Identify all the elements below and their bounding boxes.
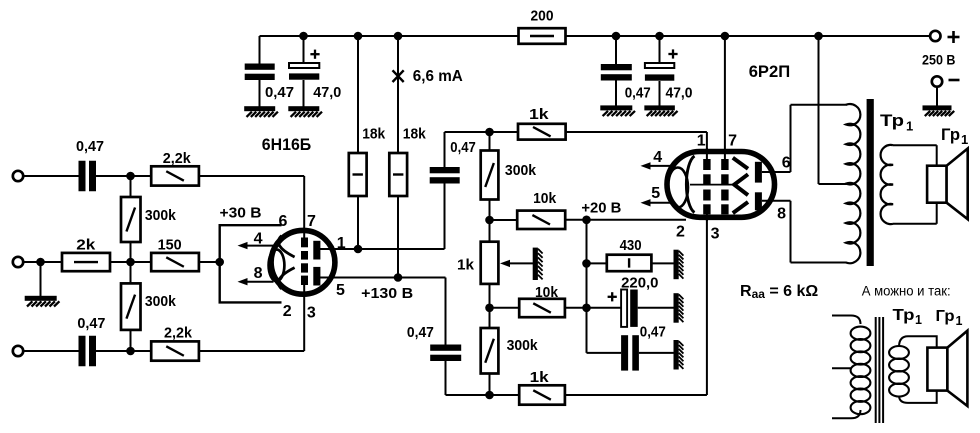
label 0,47 (cathode bypass) [640, 324, 666, 341]
svg-text:6: 6 [279, 213, 288, 230]
wire splitter top to 300k [489, 132, 491, 151]
wire 10k to cathode 6P2P [565, 219, 686, 221]
wire 2,2k to grid pin3 [199, 285, 304, 351]
wire 18k-1 top [357, 36, 359, 153]
wire 300k to bottom node [130, 330, 132, 351]
node rail-47u0-left [299, 32, 308, 41]
pin label 8 [254, 265, 263, 282]
grid arrow pin 4 [238, 242, 274, 249]
label 250 В [922, 52, 956, 68]
svg-text:4: 4 [653, 149, 662, 166]
wire cap up and right [445, 132, 490, 167]
terminal input bottom [13, 346, 23, 356]
alt OT primary lead top [832, 316, 861, 325]
wire 0,47 right cap to rail [615, 36, 617, 64]
wire 220,0 to chassis [638, 307, 674, 309]
label Raa = 6 kOhm [740, 283, 818, 301]
wire to 10k upper [490, 219, 518, 221]
wire cap to ground [303, 80, 305, 107]
svg-text:+130 В: +130 В [361, 285, 413, 302]
svg-text:3: 3 [307, 305, 316, 322]
chassis hatch (0,47) [674, 340, 684, 370]
wire 18k-1 bottom [357, 196, 359, 249]
svg-text:300k: 300k [145, 207, 177, 224]
plus sign [948, 31, 960, 43]
wire anode pin8 to OT [762, 201, 847, 263]
heater V2 [668, 168, 688, 208]
terminal + 250V [930, 31, 940, 41]
beam plate top V2 [733, 158, 748, 169]
wire input bottom [23, 350, 78, 352]
OT secondary winding [881, 145, 893, 224]
wire secondary top [893, 145, 937, 166]
pin label 1 [337, 235, 346, 252]
pin label 5 V2 [651, 185, 660, 202]
potentiometer 1k (balance) [481, 242, 499, 284]
cathode arc upper V1 [278, 236, 294, 257]
pin label 7 [307, 213, 316, 230]
label 1k (top) [529, 106, 549, 123]
wire to 10k lower [490, 307, 520, 309]
chassis hatch (220,0) [674, 293, 684, 323]
svg-text:6: 6 [782, 155, 791, 172]
svg-text:6Р2П: 6Р2П [749, 62, 791, 81]
svg-text:6,6 mA: 6,6 mA [413, 68, 463, 85]
resistor 2k [62, 253, 110, 271]
svg-text:10k: 10k [535, 284, 559, 301]
svg-text:300k: 300k [507, 337, 539, 354]
svg-text:200: 200 [531, 8, 554, 25]
wire cap down to bottom wire [446, 361, 520, 395]
resistor 300k (upper left) [121, 197, 141, 242]
wire pin3 inside V2 [706, 214, 708, 221]
wire 10k lower to bus [565, 307, 621, 309]
terminal - 250V [932, 76, 942, 86]
label Гр1 (alt) [936, 308, 963, 328]
resistor 300k (splitter lower) [481, 328, 499, 374]
ground (right 47,0) [644, 105, 677, 116]
label 0,47 (top coupling) [450, 139, 476, 156]
resistor 18k (second) [389, 153, 407, 196]
node pin1-18k [354, 245, 363, 254]
pin label 3 [307, 305, 316, 322]
svg-text:18k: 18k [362, 126, 386, 143]
resistor 10k (upper) [517, 211, 565, 229]
svg-text:3: 3 [711, 226, 720, 243]
svg-text:300k: 300k [505, 162, 537, 179]
svg-text:5: 5 [336, 282, 345, 299]
wire bus to 430 [587, 262, 607, 264]
svg-text:5: 5 [651, 185, 660, 202]
wire 2,2k to grid pin7 [199, 176, 304, 239]
label 10k (lower) [535, 284, 559, 301]
label 300k (lower left) [145, 293, 177, 310]
alt speaker Гр1 horn [947, 331, 967, 406]
wire pin5 down to coupling cap [445, 278, 447, 345]
wire input top [23, 175, 78, 177]
node bottom-input [126, 347, 135, 356]
pin label 1 V2 [697, 133, 706, 150]
resistor 10k (lower) [519, 299, 565, 317]
node mid-input [126, 258, 135, 267]
label 300k (upper left) [145, 207, 177, 224]
wire to ground [40, 262, 42, 296]
resistor 200 (B+ dropper) [519, 28, 566, 44]
wire 2k to 150 [110, 261, 151, 263]
node bottom-wire [485, 391, 494, 400]
label 47,0 (right) [666, 85, 693, 102]
label 47,0 [313, 84, 341, 101]
pin label 4 [254, 230, 263, 247]
wire node to 300k lower [130, 262, 132, 283]
grid arrow pin 4 V2 [641, 162, 672, 169]
ground (left 47,0) [288, 106, 322, 117]
svg-text:430: 430 [620, 237, 642, 254]
speaker Гр1 coil [927, 166, 947, 203]
label 0,47 (bottom coupling) [407, 324, 434, 341]
node splitter-mid-upper [485, 216, 494, 225]
anode bar lower V1 [313, 267, 320, 286]
label 1k (bottom) [530, 369, 550, 386]
label 300k (splitter lower) [507, 337, 539, 354]
svg-text:1k: 1k [530, 369, 550, 386]
svg-text:0,47: 0,47 [77, 315, 105, 332]
label 2,2k (bottom) [164, 325, 193, 342]
svg-text:Гр: Гр [936, 308, 955, 325]
svg-text:1k: 1k [529, 106, 549, 123]
capacitor 47,0 electrolytic (left filter) [289, 63, 319, 80]
node rail-pin7-6P2P [721, 32, 730, 41]
anode bar lower V2 [755, 192, 762, 210]
wire pin1 inside V2 [706, 148, 708, 160]
svg-text:2: 2 [283, 303, 292, 320]
capacitor 0,47 (top coupling) [430, 167, 460, 184]
cathode arc V2 [686, 156, 694, 213]
node grid-box [215, 258, 224, 267]
wire 0,47 left cap to rail [259, 36, 261, 64]
grid 1 dashes V2 [703, 159, 710, 214]
svg-text:7: 7 [728, 133, 737, 150]
svg-text:+20 В: +20 В [581, 200, 621, 217]
svg-text:0,47: 0,47 [625, 85, 651, 102]
svg-text:Тр: Тр [880, 111, 904, 130]
pin label 2 [283, 303, 292, 320]
svg-text:Тр: Тр [893, 307, 915, 324]
svg-text:2: 2 [676, 224, 685, 241]
pin label 4 V2 [653, 149, 662, 166]
svg-text:0,47: 0,47 [407, 324, 434, 341]
alt OT core [876, 317, 883, 423]
grid dashes V1 [301, 238, 308, 286]
alt OT primary center tap [832, 367, 851, 369]
pin label 6 V2 [782, 155, 791, 172]
resistor 18k (first) [349, 153, 367, 196]
svg-text:10k: 10k [533, 190, 557, 207]
chassis hatch (pot wiper) [533, 248, 543, 280]
svg-text:220,0: 220,0 [621, 275, 658, 292]
node rail-18k-2 [394, 32, 403, 41]
pot wiper arrow [500, 260, 533, 267]
svg-text:2k: 2k [76, 237, 96, 254]
svg-text:300k: 300k [145, 293, 177, 310]
svg-text:1k: 1k [457, 257, 475, 274]
OT core [867, 99, 874, 266]
wire 150 to grid box [199, 261, 220, 263]
label +130 В [361, 285, 413, 302]
node bus-430 [582, 259, 591, 268]
wire 0,47 to chassis [639, 352, 674, 354]
alt OT secondary lead top [899, 336, 937, 347]
label Гр1 (main) [941, 125, 968, 147]
svg-text:А можно и так:: А можно и так: [862, 284, 951, 299]
node bus-10k-lower [582, 304, 591, 313]
wire pin7 V2 [724, 36, 726, 160]
wire cathode frame pins 6-2 [220, 225, 282, 302]
label 1k (pot) [457, 257, 475, 274]
current test point x [393, 70, 404, 82]
svg-text:0,47: 0,47 [450, 139, 476, 156]
wire pin1 up to coupling cap [444, 184, 446, 250]
chassis hatch (430) [674, 250, 684, 280]
svg-text:1: 1 [956, 314, 963, 328]
svg-text:1: 1 [906, 119, 913, 134]
ground (right 0,47) [600, 105, 635, 116]
label 0,47 [265, 84, 294, 101]
label +30 В [220, 205, 262, 222]
label А можно и так: [862, 284, 951, 299]
OT primary winding [846, 104, 861, 263]
resistor 2,2k (bottom) [151, 341, 199, 360]
svg-text:1: 1 [961, 132, 968, 147]
capacitor 0,47 (bottom coupling) [430, 345, 461, 362]
svg-text:+30 В: +30 В [220, 205, 262, 222]
svg-text:Гр: Гр [941, 125, 960, 144]
svg-text:250 В: 250 В [922, 52, 956, 68]
svg-text:0,47: 0,47 [76, 138, 104, 155]
label 2,2k (top) [163, 150, 192, 167]
grid arrow pin 8 [238, 278, 274, 285]
beam plate middle V2 [734, 174, 748, 195]
label 6Р2П [749, 62, 791, 81]
resistor 1k (bottom) [519, 385, 565, 404]
wire 430 to chassis [651, 262, 673, 264]
node +20V [582, 216, 591, 225]
wire minus to ground [936, 87, 938, 106]
wire pin7 inside [303, 232, 305, 239]
label 150 [158, 237, 182, 254]
node rail-0u47-right [612, 32, 621, 41]
label 6Н16Б [262, 135, 311, 154]
capacitor 0,47 (cathode bypass) [621, 335, 639, 370]
wire 1k to grid1 6P2P [566, 132, 707, 160]
node splitter-mid-lower [485, 304, 494, 313]
wire anode pin1 [318, 248, 445, 250]
wire 1k to grid3 6P2P [565, 214, 707, 395]
alt OT secondary lead bottom [899, 391, 937, 403]
speaker Гр1 horn [947, 149, 968, 220]
capacitor 47,0 electrolytic (right filter) [645, 63, 674, 81]
wire OT center tap to rail [819, 36, 847, 184]
wire node to 300k [130, 176, 132, 197]
wire cap to 2,2k bottom [96, 350, 151, 352]
wire 18k-2 top [397, 36, 399, 153]
wire 300k to mid node [130, 242, 132, 262]
capacitor 0,47 (bottom input) [79, 336, 97, 367]
svg-text:0,47: 0,47 [640, 324, 666, 341]
resistor 300k (lower left) [121, 283, 141, 330]
pin label 5 [336, 282, 345, 299]
wire 300k to node [489, 200, 491, 242]
pin label 8 V2 [777, 206, 786, 223]
wire B+ rail [260, 35, 931, 37]
wire 47,0 left cap to rail [303, 36, 305, 63]
polarity + (right 47,0) [668, 49, 677, 58]
label 18k (second) [403, 126, 427, 143]
anode bar upper V2 [755, 162, 762, 183]
node rail-18k-1 [354, 32, 363, 41]
heater V1 [269, 249, 285, 281]
ground (supply) [923, 105, 955, 116]
alt OT secondary winding [889, 346, 909, 397]
node mid-gnd [36, 258, 45, 267]
node rail-OT-tap [814, 32, 823, 41]
pin label 7 V2 [728, 133, 737, 150]
label 0,47 (right) [625, 85, 651, 102]
svg-text:2,2k: 2,2k [164, 325, 193, 342]
svg-text:47,0: 47,0 [313, 84, 341, 101]
svg-text:47,0: 47,0 [666, 85, 693, 102]
wire input mid [23, 261, 62, 263]
svg-text:7: 7 [307, 213, 316, 230]
polarity + (220,0) [608, 292, 617, 301]
capacitor 0,47 (right filter) [601, 64, 632, 81]
cathode-beam link V2 [690, 184, 735, 186]
wire cap to 2,2k [96, 175, 151, 177]
node pin5-18k [394, 273, 403, 282]
wire 47,0 right cap to rail [659, 36, 661, 63]
beam plate bottom V2 [733, 202, 748, 213]
resistor 1k (top) [518, 124, 566, 140]
svg-text:1: 1 [915, 313, 922, 327]
label +20 В [581, 200, 621, 217]
label 0,47 (top input) [76, 138, 104, 155]
svg-text:2,2k: 2,2k [163, 150, 192, 167]
resistor 2,2k (top) [151, 166, 199, 185]
alt OT primary winding [851, 327, 871, 415]
wire 18k-2 bottom [397, 196, 399, 278]
tube V1 6N16B envelope [271, 230, 335, 294]
wire pot to lower node [489, 284, 491, 328]
wire to 1k top [490, 131, 519, 133]
label Тр1 (alt) [893, 307, 923, 327]
label 2k [76, 237, 96, 254]
wire cap to ground [659, 81, 661, 106]
tube V2 6P2P envelope [667, 152, 775, 218]
resistor 300k (splitter upper) [481, 151, 499, 200]
label 430 [620, 237, 642, 254]
terminal input mid [13, 257, 23, 267]
grid arrow pin 5 V2 [641, 199, 672, 206]
label 0,47 (bottom input) [77, 315, 105, 332]
anode bar upper V1 [313, 241, 320, 260]
svg-text:8: 8 [777, 206, 786, 223]
pin label 6 [279, 213, 288, 230]
wire secondary bottom [893, 203, 937, 224]
svg-text:1: 1 [697, 133, 706, 150]
resistor 150 [151, 253, 199, 271]
node rail-47u0-right [655, 32, 664, 41]
svg-text:0,47: 0,47 [265, 84, 294, 101]
polarity + (left 47,0) [310, 50, 319, 59]
svg-text:8: 8 [254, 265, 263, 282]
label 300k (splitter upper) [505, 162, 537, 179]
resistor 430 (cathode bias) [607, 255, 652, 272]
alt speaker Гр1 coil [927, 348, 947, 391]
svg-text:4: 4 [254, 230, 263, 247]
wire pin3 inside [303, 285, 305, 295]
ground (left 0,47) [244, 106, 278, 117]
pin label 3 V2 [711, 226, 720, 243]
terminal input top [13, 171, 23, 181]
wire bus to 0,47 [587, 352, 622, 354]
capacitor 0,47 (left filter) [245, 64, 275, 81]
minus sign [949, 79, 960, 82]
pin label 2 V2 [676, 224, 685, 241]
label Тр1 (main) [880, 111, 913, 134]
node splitter-top [485, 128, 494, 137]
wire anode pin6 to OT [762, 105, 847, 172]
label 220,0 [621, 275, 658, 292]
alt OT primary lead bottom [832, 410, 861, 418]
label 10k (upper) [533, 190, 557, 207]
wire 300k to bottom node [489, 374, 491, 396]
wire +20V bus [586, 220, 588, 353]
svg-text:150: 150 [158, 237, 182, 254]
node top-input [126, 172, 135, 181]
grid 2 dashes V2 [721, 159, 728, 214]
cathode arc lower V1 [278, 268, 294, 289]
label 200 [531, 8, 554, 25]
wire cap to ground [259, 80, 261, 107]
svg-text:6Н16Б: 6Н16Б [262, 135, 311, 154]
label 18k (first) [362, 126, 386, 143]
capacitor 0,47 (top input) [79, 161, 97, 192]
capacitor 220,0 electrolytic (cathode bypass) [621, 290, 638, 327]
wire cap to ground [615, 81, 617, 107]
wire anode pin5 [318, 277, 446, 279]
svg-text:18k: 18k [403, 126, 427, 143]
ground (mid input) [25, 296, 60, 307]
label 6,6 mA [413, 68, 463, 85]
